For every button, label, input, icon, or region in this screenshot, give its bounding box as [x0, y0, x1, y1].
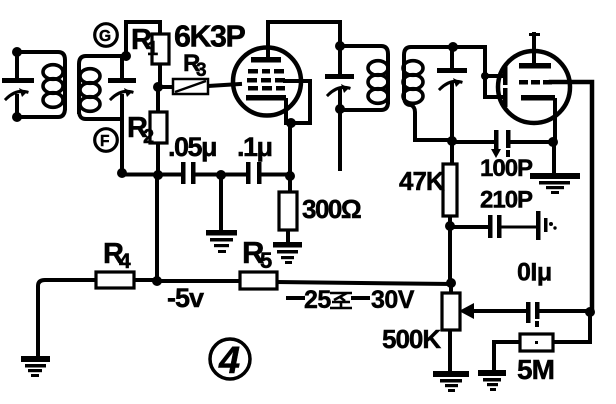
svg-text:G: G [99, 28, 111, 45]
svg-text:.1μ: .1μ [237, 132, 272, 162]
svg-text:1: 1 [147, 38, 158, 60]
svg-text:500K: 500K [382, 324, 441, 354]
svg-text:4: 4 [218, 340, 240, 382]
svg-text:25: 25 [304, 286, 331, 314]
svg-text:5M: 5M [517, 354, 554, 385]
svg-text:4: 4 [119, 250, 131, 273]
svg-text:210P: 210P [480, 187, 533, 214]
svg-text:47K: 47K [399, 166, 445, 196]
svg-text:.05μ: .05μ [168, 132, 216, 162]
svg-text:300Ω: 300Ω [302, 194, 361, 224]
svg-text:100P: 100P [480, 155, 533, 182]
svg-text:2: 2 [143, 126, 154, 148]
svg-text:-5v: -5v [167, 283, 204, 313]
svg-text:0Iμ: 0Iμ [517, 259, 552, 287]
svg-text:30V: 30V [371, 286, 415, 314]
svg-text:3: 3 [196, 60, 207, 81]
svg-text:F: F [100, 133, 109, 150]
svg-text:6K3P: 6K3P [174, 20, 245, 54]
svg-text:5: 5 [260, 248, 272, 273]
